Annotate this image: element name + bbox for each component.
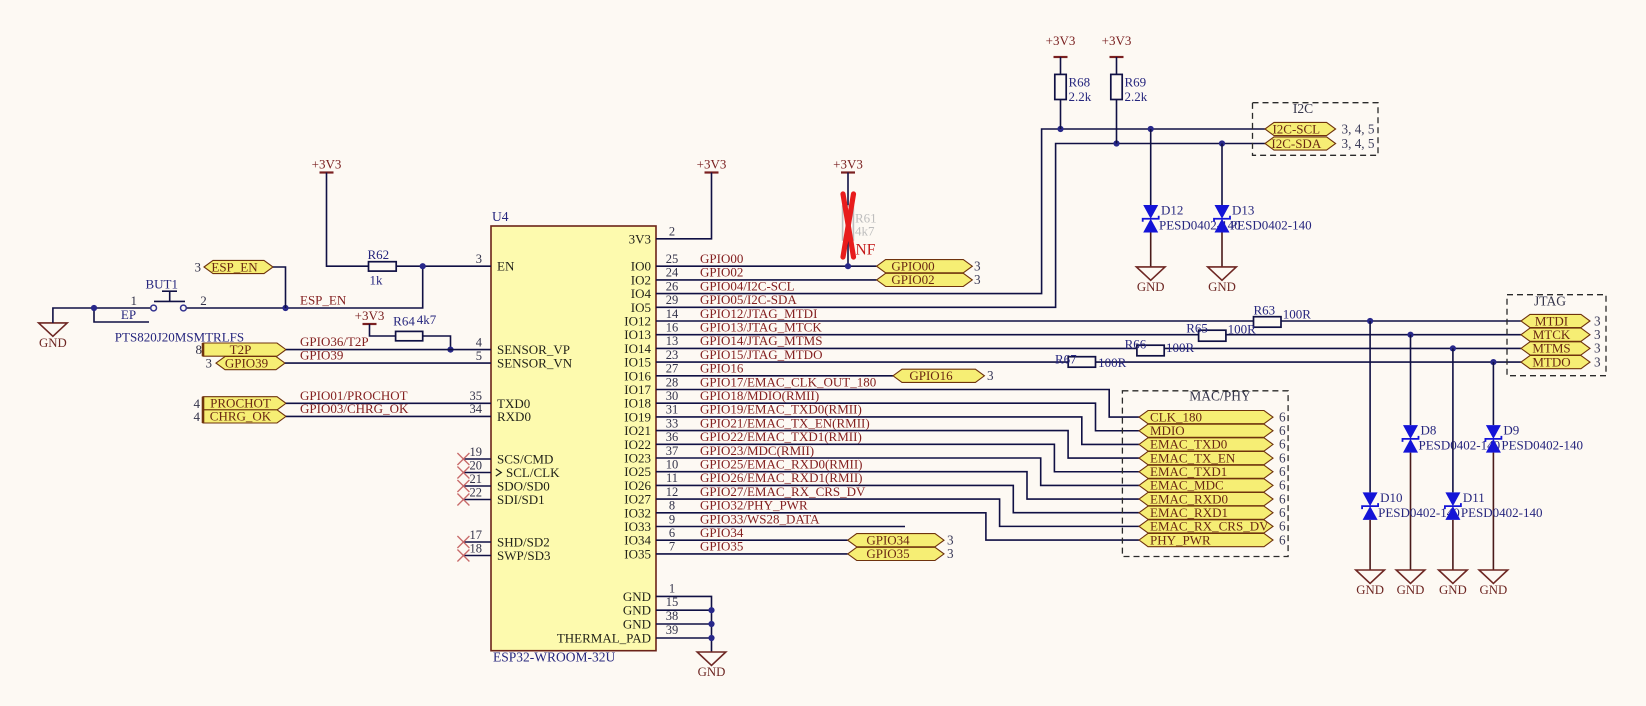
svg-text:GND: GND <box>698 665 726 679</box>
svg-text:+3V3: +3V3 <box>1102 33 1132 48</box>
wire MAC/PHY net 5 <box>656 458 1139 485</box>
svg-text:1k: 1k <box>370 273 384 288</box>
svg-text:SENSOR_VN: SENSOR_VN <box>497 356 573 371</box>
wire GPIO00 <box>656 265 877 267</box>
svg-text:+3V3: +3V3 <box>355 308 385 323</box>
svg-text:CHRG_OK: CHRG_OK <box>210 409 272 424</box>
ground GND below D11 <box>1439 570 1468 583</box>
svg-text:24: 24 <box>666 266 679 280</box>
port EMAC_RXD1 flag <box>1139 506 1273 519</box>
wire BUT1 pin2 to ESP_EN node <box>187 266 423 308</box>
svg-text:MAC/PHY: MAC/PHY <box>1189 389 1251 404</box>
svg-text:GND: GND <box>1397 583 1425 597</box>
svg-text:6: 6 <box>1279 532 1286 547</box>
wire GPIO16 <box>656 375 893 377</box>
ground GND below D12 <box>1136 267 1165 280</box>
svg-text:ESP_EN: ESP_EN <box>300 293 347 308</box>
svg-text:3, 4, 5: 3, 4, 5 <box>1342 121 1375 136</box>
wire T2P to SENSOR_VP <box>286 349 491 351</box>
svg-text:19: 19 <box>470 445 483 459</box>
wire MAC/PHY net 4 <box>656 444 1139 471</box>
diode D12 PESD0402-140 <box>1150 129 1152 205</box>
ground GND below chip <box>697 652 726 665</box>
diode D8 PESD0402-140 <box>1410 335 1412 425</box>
svg-text:R64: R64 <box>393 314 415 329</box>
port T2P flag <box>203 343 286 356</box>
port MTMS flag <box>1521 342 1590 355</box>
svg-text:33: 33 <box>666 416 679 430</box>
svg-text:GND: GND <box>623 603 651 618</box>
svg-text:8: 8 <box>196 342 203 357</box>
resistor R62 1k <box>369 262 397 271</box>
svg-text:GND: GND <box>623 617 651 632</box>
svg-text:D12: D12 <box>1161 203 1183 218</box>
svg-text:I2C: I2C <box>1293 101 1313 116</box>
svg-text:13: 13 <box>666 334 679 348</box>
svg-text:SDI/SD1: SDI/SD1 <box>497 492 545 507</box>
svg-text:JTAG: JTAG <box>1534 294 1566 309</box>
wire no-connect stub pin 22 <box>463 499 491 501</box>
no-connect X pin 22 <box>457 494 469 506</box>
MAC/PHY dashed box <box>1122 391 1288 557</box>
wire R69 to SDA <box>1116 100 1118 144</box>
port I2C-SDA flag <box>1265 137 1336 150</box>
wire no-connect stub pin 18 <box>463 555 491 557</box>
svg-text:GND: GND <box>39 336 67 350</box>
port EMAC_TX_EN flag <box>1139 451 1273 464</box>
junction <box>1407 332 1413 338</box>
svg-text:17: 17 <box>470 528 483 542</box>
svg-text:5: 5 <box>476 349 482 363</box>
port CLK_180 flag <box>1139 411 1273 424</box>
port CHRG_OK flag <box>203 410 286 423</box>
ground GND below D8 <box>1396 570 1425 583</box>
wire no-connect stub pin 19 <box>463 458 491 460</box>
wire +3V3 to R64 <box>370 324 396 336</box>
wire MTDI net <box>656 320 1254 322</box>
no-connect X pin 19 <box>457 453 469 465</box>
svg-text:+3V3: +3V3 <box>312 157 342 172</box>
svg-text:100R: 100R <box>1283 307 1312 322</box>
no-connect X pin 17 <box>457 536 469 548</box>
svg-text:THERMAL_PAD: THERMAL_PAD <box>557 631 651 646</box>
resistor R66 100R <box>1137 345 1164 356</box>
svg-text:+3V3: +3V3 <box>1046 33 1076 48</box>
svg-text:GPIO02: GPIO02 <box>891 272 934 287</box>
wire PROCHOT to TXD0 <box>286 402 491 404</box>
wire R61 vertical <box>847 173 849 267</box>
power +3V3 above R62 <box>320 171 334 173</box>
ground GND at button <box>39 323 68 336</box>
svg-text:21: 21 <box>470 472 483 486</box>
svg-text:2: 2 <box>200 293 207 308</box>
port PHY_PWR flag <box>1139 533 1273 546</box>
svg-text:2: 2 <box>669 225 675 239</box>
svg-text:GPIO16: GPIO16 <box>909 368 953 383</box>
svg-text:GPIO39: GPIO39 <box>300 348 343 363</box>
svg-text:GPIO39: GPIO39 <box>225 355 268 370</box>
port GPIO00 flag <box>877 260 973 273</box>
svg-text:16: 16 <box>666 321 679 335</box>
svg-text:PESD0402-140: PESD0402-140 <box>1461 505 1543 520</box>
wire chip GND pins <box>656 596 712 652</box>
svg-text:23: 23 <box>666 348 679 362</box>
svg-text:1: 1 <box>669 581 675 595</box>
IC U4 ESP32-WROOM-32U <box>491 226 656 651</box>
resistor R61 4k7 not-fitted gray <box>843 206 854 240</box>
port EMAC_RX_CRS_DV flag <box>1139 520 1273 533</box>
junction <box>1113 140 1119 146</box>
svg-text:11: 11 <box>666 471 678 485</box>
resistor R68 2.2k <box>1055 74 1066 99</box>
junction <box>282 305 288 311</box>
svg-text:4k7: 4k7 <box>417 312 437 327</box>
svg-text:GND: GND <box>1356 583 1384 597</box>
port EMAC_TXD0 flag <box>1139 438 1273 451</box>
svg-text:D9: D9 <box>1503 423 1519 438</box>
svg-text:RXD0: RXD0 <box>497 409 531 424</box>
svg-text:100R: 100R <box>1228 322 1257 337</box>
svg-text:4: 4 <box>476 335 483 349</box>
svg-text:27: 27 <box>666 362 679 376</box>
svg-text:3: 3 <box>987 368 994 383</box>
svg-text:1: 1 <box>131 293 138 308</box>
diode D10 PESD0402-140 <box>1369 321 1371 492</box>
ground GND below D13 <box>1208 267 1237 280</box>
junction <box>708 635 714 641</box>
port EMAC_TXD1 flag <box>1139 465 1273 478</box>
svg-text:R66: R66 <box>1125 337 1147 352</box>
wire +3V3 to R62 <box>327 173 369 267</box>
svg-text:GND: GND <box>1480 583 1508 597</box>
svg-text:R67: R67 <box>1055 352 1077 367</box>
resistor R64 4k7 <box>396 331 423 340</box>
svg-text:+3V3: +3V3 <box>833 157 863 172</box>
svg-text:I2C-SCL: I2C-SCL <box>1272 121 1320 136</box>
wire I2C-SCL net <box>656 129 1265 294</box>
svg-text:38: 38 <box>666 609 679 623</box>
power +3V3 above R61 <box>841 171 855 173</box>
svg-text:GND: GND <box>1137 280 1165 294</box>
svg-text:D13: D13 <box>1232 203 1254 218</box>
svg-text:31: 31 <box>666 403 679 417</box>
power +3V3 above R68 <box>1054 56 1068 58</box>
port MDIO flag <box>1139 424 1273 437</box>
port EMAC_MDC flag <box>1139 479 1273 492</box>
svg-text:3: 3 <box>947 546 954 561</box>
junction <box>420 263 426 269</box>
svg-text:I2C-SDA: I2C-SDA <box>1271 136 1321 151</box>
wire no-connect stub pin 21 <box>463 485 491 487</box>
svg-text:7: 7 <box>669 540 675 554</box>
svg-text:3, 4, 5: 3, 4, 5 <box>1342 136 1375 151</box>
svg-text:3: 3 <box>974 272 981 287</box>
wire no-connect stub pin 20 <box>463 472 491 474</box>
port I2C-SCL flag <box>1265 122 1336 135</box>
svg-text:MTDO: MTDO <box>1532 354 1570 369</box>
svg-text:GPIO03/CHRG_OK: GPIO03/CHRG_OK <box>300 401 409 416</box>
svg-text:2.2k: 2.2k <box>1125 89 1148 104</box>
svg-text:29: 29 <box>666 293 679 307</box>
resistor R69 2.2k <box>1111 74 1122 99</box>
svg-text:6: 6 <box>669 526 675 540</box>
port EMAC_RXD0 flag <box>1139 492 1273 505</box>
ground GND below D10 <box>1356 570 1385 583</box>
wire CHRG_OK to RXD0 <box>286 415 491 417</box>
svg-text:3: 3 <box>476 252 482 266</box>
svg-text:PESD0402-140: PESD0402-140 <box>1159 218 1241 233</box>
svg-text:D10: D10 <box>1380 490 1402 505</box>
svg-text:PHY_PWR: PHY_PWR <box>1150 532 1211 547</box>
power +3V3 above R69 <box>1110 56 1124 58</box>
svg-text:2.2k: 2.2k <box>1069 89 1092 104</box>
svg-text:R63: R63 <box>1254 303 1276 318</box>
wire +3V3 to R68 <box>1060 57 1062 74</box>
svg-text:30: 30 <box>666 389 679 403</box>
diode D13 PESD0402-140 <box>1221 144 1223 206</box>
svg-text:PTS820J20MSMTRLFS: PTS820J20MSMTRLFS <box>115 330 244 345</box>
wire R62 to EN pin 3 <box>396 265 491 267</box>
svg-text:ESP_EN: ESP_EN <box>211 259 258 274</box>
port PROCHOT flag <box>203 397 286 410</box>
svg-text:22: 22 <box>470 485 483 499</box>
svg-text:3: 3 <box>195 259 202 274</box>
port MTDI flag <box>1521 314 1590 327</box>
port MTDO flag <box>1521 356 1590 369</box>
wire MAC/PHY net 3 <box>656 431 1139 458</box>
port GPIO34 flag <box>848 534 944 547</box>
wire R68 to SCL <box>1060 100 1062 130</box>
junction <box>1450 345 1456 351</box>
wire I2C-SDA net <box>656 144 1265 308</box>
svg-text:R68: R68 <box>1069 75 1091 90</box>
wire GPIO35 <box>656 553 848 555</box>
diode D9 PESD0402-140 <box>1492 362 1494 425</box>
port MTCK flag <box>1521 328 1590 341</box>
wire GPIO02 <box>656 279 877 281</box>
no-connect X pin 21 <box>457 480 469 492</box>
svg-text:25: 25 <box>666 252 679 266</box>
svg-text:GND: GND <box>623 589 651 604</box>
svg-text:39: 39 <box>666 623 679 637</box>
resistor R67 100R <box>1068 357 1095 368</box>
svg-text:100R: 100R <box>1166 340 1195 355</box>
svg-text:12: 12 <box>666 485 679 499</box>
svg-text:10: 10 <box>666 458 679 472</box>
no-connect X pin 18 <box>457 550 469 562</box>
no-connect X pin 20 <box>457 467 469 479</box>
junction <box>708 621 714 627</box>
svg-text:37: 37 <box>666 444 679 458</box>
diode D11 PESD0402-140 <box>1452 348 1454 492</box>
wire 3V3 pin 2 <box>656 173 712 239</box>
svg-text:ESP32-WROOM-32U: ESP32-WROOM-32U <box>493 650 616 665</box>
svg-text:R62: R62 <box>367 247 389 262</box>
svg-text:26: 26 <box>666 279 679 293</box>
junction <box>708 607 714 613</box>
svg-text:PESD0402-140: PESD0402-140 <box>1501 438 1583 453</box>
junction <box>1148 126 1154 132</box>
ground GND below D9 <box>1479 570 1508 583</box>
junction <box>447 347 453 353</box>
port ESP_EN flag <box>204 260 273 273</box>
wire MAC/PHY net 7 <box>656 485 1139 512</box>
port GPIO02 flag <box>877 273 973 286</box>
power +3V3 above pin 2 <box>705 171 719 173</box>
wire MAC/PHY net 9 <box>656 513 1139 540</box>
wire R64 to T2P node <box>423 336 451 350</box>
svg-text:4k7: 4k7 <box>855 224 875 239</box>
svg-text:+3V3: +3V3 <box>697 157 727 172</box>
svg-text:EN: EN <box>497 259 515 274</box>
wire GND to BUT1 pin1 and EP <box>53 308 150 323</box>
wire GPIO39 to SENSOR_VN <box>285 362 491 364</box>
wire MTMS net <box>656 347 1137 349</box>
svg-text:PESD0402-140: PESD0402-140 <box>1230 218 1312 233</box>
wire MAC/PHY net 0 <box>656 390 1139 418</box>
wire +3V3 to R69 <box>1116 57 1118 74</box>
wire GPIO33/WS28_DATA dead end <box>656 526 905 528</box>
svg-text:R69: R69 <box>1125 75 1147 90</box>
junction <box>845 263 851 269</box>
svg-text:4: 4 <box>194 409 201 424</box>
svg-text:3: 3 <box>1594 354 1601 369</box>
svg-text:SWP/SD3: SWP/SD3 <box>497 548 550 563</box>
wire MTDO net <box>656 361 1068 363</box>
junction <box>1490 359 1496 365</box>
wire no-connect stub pin 17 <box>463 541 491 543</box>
JTAG dashed box <box>1507 295 1606 376</box>
svg-text:28: 28 <box>666 375 679 389</box>
svg-text:D8: D8 <box>1421 423 1437 438</box>
svg-text:NF: NF <box>856 242 876 259</box>
wire ESP_EN flag drop <box>273 267 286 308</box>
svg-text:EP: EP <box>121 307 136 322</box>
junction <box>91 305 97 311</box>
svg-text:GND: GND <box>1439 583 1467 597</box>
wire MAC/PHY net 1 <box>656 403 1139 431</box>
svg-text:BUT1: BUT1 <box>145 277 178 292</box>
junction <box>1367 318 1373 324</box>
svg-text:14: 14 <box>666 307 679 321</box>
svg-text:36: 36 <box>666 430 679 444</box>
port GPIO35 flag <box>848 547 944 560</box>
wire MAC/PHY net 6 <box>656 472 1139 499</box>
port GPIO16 flag <box>893 369 984 382</box>
svg-text:34: 34 <box>470 402 483 416</box>
svg-text:35: 35 <box>470 389 483 403</box>
wire MTCK net <box>656 334 1199 336</box>
resistor R63 100R <box>1254 317 1282 328</box>
svg-text:100R: 100R <box>1098 355 1127 370</box>
wire MAC/PHY net 2 <box>656 417 1139 445</box>
svg-text:3V3: 3V3 <box>629 231 651 246</box>
svg-text:D11: D11 <box>1463 490 1485 505</box>
svg-text:IO35: IO35 <box>624 546 651 561</box>
junction <box>1219 140 1225 146</box>
push button BUT1 PTS820J20MSMTRLFS <box>151 305 157 311</box>
power +3V3 above R64 <box>363 323 377 325</box>
svg-text:3: 3 <box>206 356 213 371</box>
wire MAC/PHY net 8 <box>656 499 1139 526</box>
wire GPIO34 <box>656 539 848 541</box>
svg-text:15: 15 <box>666 595 679 609</box>
svg-text:9: 9 <box>669 512 675 526</box>
junction <box>1057 126 1063 132</box>
svg-text:U4: U4 <box>492 209 509 224</box>
svg-text:GPIO35: GPIO35 <box>866 546 909 561</box>
svg-text:R65: R65 <box>1186 321 1208 336</box>
svg-text:8: 8 <box>669 499 675 513</box>
svg-text:GND: GND <box>1208 280 1236 294</box>
svg-text:18: 18 <box>470 541 483 555</box>
resistor R65 100R <box>1199 330 1226 341</box>
I2C dashed box <box>1253 103 1379 156</box>
port GPIO39 flag <box>216 357 285 370</box>
no-fit cross over R61 <box>843 194 854 257</box>
svg-text:20: 20 <box>470 458 483 472</box>
